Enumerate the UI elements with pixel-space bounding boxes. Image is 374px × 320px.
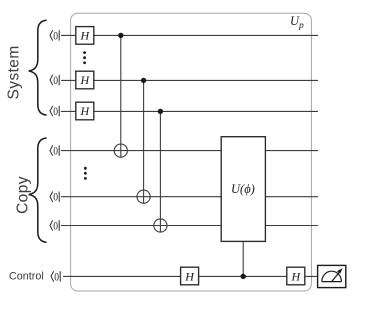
svg-text:System: System <box>6 45 23 99</box>
wire CNOT2 vertical <box>143 80 145 203</box>
control dot U(phi) <box>241 274 246 279</box>
wire q3 (system qubit 3) <box>61 110 318 112</box>
svg-text:U(ϕ): U(ϕ) <box>231 182 255 196</box>
ket label q4 <box>50 145 59 158</box>
control dot CNOT2 <box>141 78 146 83</box>
gate H q2 <box>76 71 94 89</box>
dots vertical copy <box>84 167 87 180</box>
svg-text:0: 0 <box>53 220 58 233</box>
ket label q2 <box>50 74 59 87</box>
svg-text:H: H <box>80 104 91 118</box>
dots vertical system <box>83 51 86 64</box>
svg-text:0: 0 <box>53 29 58 42</box>
svg-text:Copy: Copy <box>14 176 31 214</box>
gate H control 1 <box>181 267 199 285</box>
ket label q3 <box>50 105 59 118</box>
svg-text:H: H <box>184 269 195 283</box>
control dot CNOT1 <box>118 33 123 38</box>
wire q6 (copy qubit 3) <box>61 225 318 227</box>
CNOT1 target <box>114 144 127 157</box>
svg-text:H: H <box>291 269 302 283</box>
gate U(phi) <box>221 137 265 242</box>
wire q5 (copy qubit 2) <box>61 196 318 198</box>
brace System <box>29 20 46 115</box>
brace Copy <box>29 138 46 242</box>
CNOT3 target <box>154 219 167 232</box>
wire q4 (copy qubit 1) <box>61 150 318 152</box>
ket label q7 <box>51 270 60 283</box>
wire CNOT1 vertical <box>120 35 122 157</box>
wire q1 (system qubit 1) <box>61 34 318 36</box>
CNOT2 target <box>137 190 150 203</box>
svg-text:0: 0 <box>53 105 58 118</box>
svg-text:H: H <box>80 73 91 87</box>
svg-text:Control: Control <box>9 271 44 283</box>
svg-text:0: 0 <box>54 270 59 283</box>
wire q2 (system qubit 2) <box>61 79 318 81</box>
svg-text:0: 0 <box>53 191 58 204</box>
svg-text:0: 0 <box>53 74 58 87</box>
gate H control 2 <box>287 267 305 285</box>
ket label q6 <box>50 220 59 233</box>
wire q7 (control qubit) <box>63 275 318 277</box>
control dot CNOT3 <box>158 109 163 114</box>
wire CNOT3 vertical <box>159 111 161 232</box>
svg-text:H: H <box>80 29 91 43</box>
svg-text:0: 0 <box>53 145 58 158</box>
gate H q3 <box>76 102 94 120</box>
dashed-box U_p (outer rounded operator box) <box>71 13 312 291</box>
ket label q1 <box>50 29 59 42</box>
wire control-U vertical <box>242 241 244 276</box>
ket label q5 <box>50 191 59 204</box>
meter M (measurement) <box>318 265 346 287</box>
gate H q1 <box>76 27 94 45</box>
